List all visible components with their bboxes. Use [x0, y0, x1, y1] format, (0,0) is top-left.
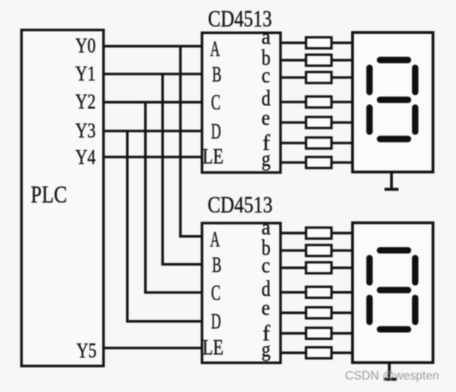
wire U1.c to display — [279, 76, 354, 79]
svg-text:D: D — [211, 118, 221, 143]
wire U1.e to display — [279, 121, 354, 124]
svg-text:PLC: PLC — [31, 182, 67, 209]
wire U2.b to display — [279, 249, 354, 252]
IC U1 CD4513 box — [202, 33, 281, 173]
svg-text:C: C — [211, 90, 221, 115]
DS2 segment e (lower-left) — [366, 298, 372, 322]
svg-text:Y2: Y2 — [75, 90, 95, 114]
resistor R10 — [306, 262, 332, 273]
resistor R14 — [306, 347, 332, 358]
wire U2.d to display — [279, 291, 354, 294]
wire U2.e to display — [279, 311, 354, 314]
svg-text:g: g — [262, 336, 271, 361]
DS2 segment b (upper-right) — [412, 258, 418, 282]
svg-text:C: C — [211, 280, 221, 305]
wire U1.g to display — [279, 161, 354, 164]
svg-text:Y4: Y4 — [75, 145, 96, 169]
resistor R11 — [306, 287, 332, 298]
ground GND2 — [384, 363, 397, 380]
svg-text:B: B — [212, 252, 222, 277]
resistor R7 — [306, 157, 332, 168]
wire Y0 PLC to U1.A — [102, 45, 204, 48]
svg-text:CSDN @wespten: CSDN @wespten — [345, 368, 439, 382]
wire Y5 PLC to U2.LE — [102, 347, 204, 350]
DS1 segment e (lower-left) — [366, 108, 372, 132]
DS2 segment c (lower-right) — [412, 298, 418, 322]
resistor R13 — [306, 328, 332, 339]
wire Y4 PLC to U1.LE — [102, 156, 204, 159]
wire Y2 drop to U2.C — [145, 102, 203, 292]
resistor R1 — [306, 37, 332, 48]
DS1 segment f (upper-left) — [366, 68, 372, 92]
wire Y3 PLC to U1.D — [102, 130, 204, 133]
wire U2.f to display — [279, 332, 354, 335]
wire Y2 PLC to U1.C — [102, 101, 204, 104]
svg-text:A: A — [210, 36, 220, 61]
wire U2.c to display — [279, 266, 354, 269]
resistor R12 — [306, 307, 332, 318]
wire U1.f to display — [279, 142, 354, 145]
resistor R4 — [306, 97, 332, 108]
wire U2.a to display — [279, 232, 354, 235]
wire Y0 drop to U2.A — [180, 46, 203, 236]
DS1 segment b (upper-right) — [412, 68, 418, 92]
wire U1.a to display — [279, 41, 354, 44]
svg-text:A: A — [210, 226, 220, 251]
svg-text:c: c — [262, 253, 271, 278]
svg-text:c: c — [262, 62, 271, 87]
DS1 segment d (bottom) — [380, 136, 408, 142]
resistor R8 — [306, 228, 332, 239]
IC U2 CD4513 box — [202, 223, 281, 363]
svg-text:LE: LE — [203, 335, 224, 360]
svg-text:g: g — [262, 146, 271, 171]
DS2 segment d (bottom) — [380, 326, 408, 332]
resistor R9 — [306, 245, 332, 256]
DS1 segment a (top) — [380, 57, 408, 63]
svg-text:e: e — [262, 105, 271, 130]
DS2 segment f (upper-left) — [366, 258, 372, 282]
svg-text:B: B — [212, 62, 222, 87]
resistor R3 — [306, 72, 332, 83]
DS1 segment c (lower-right) — [412, 108, 418, 132]
wire Y1 PLC to U1.B — [102, 73, 204, 76]
svg-text:D: D — [211, 309, 221, 334]
svg-text:e: e — [262, 295, 271, 320]
display DS1 box — [353, 33, 434, 173]
resistor R6 — [306, 138, 332, 149]
display DS2 box — [353, 223, 434, 363]
svg-text:Y0: Y0 — [75, 34, 95, 58]
DS2 segment a (top) — [380, 247, 408, 253]
svg-text:LE: LE — [203, 144, 224, 169]
resistor R2 — [306, 55, 332, 66]
wire U2.g to display — [279, 351, 354, 354]
PLC box — [22, 30, 104, 366]
DS1 segment g (middle) — [380, 97, 408, 103]
resistor R5 — [306, 117, 332, 128]
wire Y3 drop to U2.D — [127, 131, 203, 321]
ground GND1 — [385, 172, 399, 189]
svg-text:Y3: Y3 — [75, 119, 95, 143]
DS2 segment g (middle) — [380, 287, 408, 293]
wire U1.b to display — [279, 59, 354, 62]
svg-text:Y1: Y1 — [75, 62, 95, 86]
svg-text:Y5: Y5 — [77, 338, 97, 362]
wire Y1 drop to U2.B — [163, 74, 204, 264]
wire U1.d to display — [279, 101, 354, 104]
